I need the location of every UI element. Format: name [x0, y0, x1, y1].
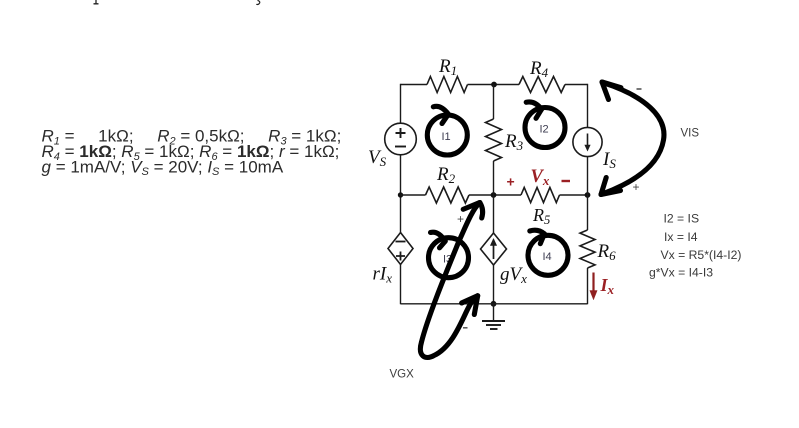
node middle-right junction — [585, 192, 591, 198]
wire: center column lower — [493, 265, 495, 304]
wire: center column middle — [493, 161, 495, 233]
annotation arrow VIS (hand-drawn curve) — [601, 82, 664, 195]
svg-text:R2: R2 — [436, 164, 456, 186]
svg-text:R1: R1 — [438, 56, 457, 78]
label I1 — [442, 131, 451, 143]
svg-text:VGX: VGX — [390, 369, 415, 381]
node ground junction — [491, 301, 497, 307]
title remnant mark cedilla — [256, 0, 259, 4]
wire: right rail upper — [587, 84, 589, 128]
equation block right — [649, 212, 741, 280]
annotation small plus near VGX upper arrow — [457, 212, 464, 226]
svg-text:+: + — [457, 212, 464, 226]
label Is — [602, 149, 616, 171]
label I4 — [543, 251, 552, 263]
mesh current I1 loop — [427, 106, 467, 155]
label R4 — [529, 58, 549, 80]
svg-text:I1: I1 — [442, 131, 451, 143]
wire: top rail left segment — [401, 84, 428, 86]
label Ix current arrow (red) — [590, 273, 597, 300]
svg-text:+: + — [507, 174, 515, 190]
ground — [482, 304, 505, 329]
svg-text:g*Vx = I4-I3: g*Vx = I4-I3 — [649, 265, 713, 279]
svg-text:Vx = R5*(I4-I2): Vx = R5*(I4-I2) — [661, 248, 742, 262]
wire: left rail upper — [400, 84, 402, 123]
gVx internal arrow — [490, 239, 496, 260]
wire: left rail middle — [400, 155, 402, 233]
label Vx plus sign (red) — [507, 174, 515, 190]
label R1 — [438, 56, 457, 78]
label R5 — [532, 205, 550, 227]
label VIS — [681, 128, 700, 140]
svg-text:VS: VS — [368, 147, 387, 169]
label I3 — [443, 254, 452, 266]
wire: middle rail center segment — [469, 194, 521, 196]
annotation small minus near VGX lower arrow — [463, 327, 468, 329]
label Ix (red) — [600, 275, 615, 297]
Is internal arrowhead — [584, 145, 590, 152]
svg-text:gVx: gVx — [500, 264, 527, 286]
svg-text:VIS: VIS — [681, 128, 700, 140]
label Vx minus sign (red) — [562, 180, 571, 182]
label VGX — [390, 369, 415, 381]
svg-text:R4: R4 — [529, 58, 549, 80]
label R6 — [597, 241, 617, 263]
wire: center column upper — [493, 85, 495, 120]
label gVx — [500, 264, 527, 286]
annotation small plus near VIS bottom — [633, 180, 640, 194]
resistor R5 — [521, 187, 560, 202]
mesh current I4 loop — [528, 230, 568, 275]
node left-middle junction — [398, 192, 403, 197]
node middle-center junction — [491, 192, 497, 198]
wire: middle rail right segment — [560, 194, 588, 196]
svg-text:rIx: rIx — [373, 264, 393, 286]
title remnant mark left — [94, 0, 99, 4]
wire: top rail right segment — [565, 84, 588, 86]
dependent source rIx (diamond) — [388, 233, 413, 265]
label R3 — [504, 131, 524, 153]
annotation small minus near VIS top — [637, 88, 642, 90]
resistor R4 — [519, 77, 565, 93]
wire: right rail lower — [587, 268, 589, 304]
dependent source gVx (diamond) — [481, 233, 507, 265]
mesh current I2 loop — [525, 102, 565, 148]
label Vs — [368, 147, 387, 169]
mesh current I3 loop — [429, 232, 469, 278]
label R2 — [436, 164, 456, 186]
current source Is — [573, 127, 602, 156]
svg-text:I2 = IS: I2 = IS — [664, 212, 700, 226]
svg-text:+: + — [633, 180, 640, 194]
svg-text:Ix: Ix — [600, 275, 615, 297]
svg-text:Ix = I4: Ix = I4 — [664, 230, 698, 244]
wire: top rail middle segment — [468, 84, 520, 86]
node top-middle junction — [491, 82, 497, 88]
svg-text:I4: I4 — [543, 251, 552, 263]
svg-text:I2: I2 — [540, 124, 549, 136]
svg-text:Vx: Vx — [531, 167, 550, 188]
svg-text:g = 1mA/V; VS = 20V; IS = 10mA: g = 1mA/V; VS = 20V; IS = 10mA — [42, 157, 284, 178]
svg-text:R3: R3 — [504, 131, 524, 153]
voltage source Vs — [385, 123, 417, 155]
wire: left rail lower — [400, 265, 402, 305]
svg-text:IS: IS — [602, 149, 616, 171]
label Vx (red) — [531, 167, 550, 188]
wire: middle rail left segment — [401, 194, 426, 196]
annotation arrow VGX (hand-drawn double arrow) — [420, 203, 482, 358]
resistor R1 — [427, 77, 468, 93]
wire: bottom rail — [401, 303, 588, 305]
label I2 — [540, 124, 549, 136]
value label block — [42, 127, 342, 178]
svg-text:R6: R6 — [597, 241, 617, 263]
resistor R3 — [486, 119, 502, 161]
resistor R2 — [426, 187, 470, 203]
wire: right rail middle — [587, 157, 589, 230]
resistor R6 — [580, 230, 595, 268]
label rIx — [373, 264, 393, 286]
svg-text:R5: R5 — [532, 205, 550, 227]
